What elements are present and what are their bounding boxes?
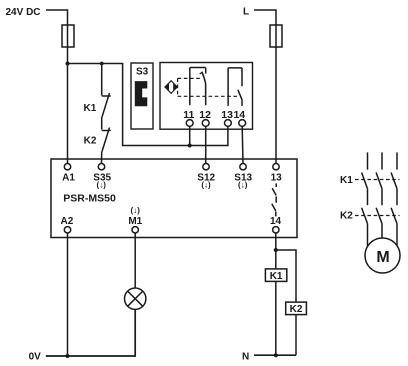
wire K1 coil to N [275, 281, 277, 355]
pluggable mark S35 [97, 180, 107, 189]
wire terminal 14 down [275, 233, 277, 269]
pin label 13 [221, 109, 233, 121]
contact K2 (NC feedback) [102, 117, 111, 164]
svg-text:K2: K2 [84, 136, 97, 147]
magnet symbol of S3 [135, 81, 148, 106]
motor M [365, 238, 400, 273]
terminal S13 [240, 164, 246, 170]
motor feeder pole 1 [362, 152, 368, 246]
svg-text:14: 14 [270, 216, 282, 227]
wire K2 coil to N [295, 315, 297, 356]
wire 0V rail [46, 309, 135, 356]
svg-text:PSR-MS50: PSR-MS50 [63, 193, 116, 205]
motor feeder pole 2 [376, 152, 382, 238]
wire sensor 12 to S12 [205, 127, 207, 164]
sensor actuation diamond symbol [165, 81, 177, 94]
pin label 14 [233, 109, 245, 121]
terminal S35 [98, 164, 104, 170]
label K2 [84, 136, 97, 147]
terminal label S35 [93, 173, 111, 184]
terminal label S13 [234, 173, 252, 184]
terminal A1 [64, 164, 70, 170]
svg-text:K1: K1 [84, 103, 97, 114]
wire 24V bus to sensor supply [68, 64, 228, 146]
label K2 contactor [340, 211, 353, 222]
pluggable mark S13 [238, 180, 248, 189]
dashed actuation lines [178, 78, 240, 96]
label K1 coil [270, 271, 283, 282]
svg-text:K2: K2 [340, 211, 353, 222]
node junction 24V bus at A1 column [66, 62, 70, 66]
svg-text:K2: K2 [290, 304, 303, 315]
svg-text:(↓): (↓) [97, 180, 107, 189]
fuse F2 [270, 25, 282, 47]
sensor contact 13-14 (NO) [228, 68, 242, 106]
terminal label A1 [62, 173, 75, 184]
wire 24V DC feed to A1 [46, 10, 68, 164]
pluggable mark S12 [201, 180, 211, 189]
internal safety contacts 13-14 [272, 183, 276, 216]
node junction K1 on N rail [274, 353, 278, 357]
svg-text:M1: M1 [128, 216, 142, 227]
safety sensor box B1 [160, 63, 253, 130]
terminal 14 [273, 227, 279, 233]
coil K2 [286, 302, 307, 315]
net L label [243, 7, 249, 18]
wire branch to K2 coil [276, 250, 296, 302]
wire M1 to lamp [134, 233, 136, 288]
wire A2 to 0V rail [67, 233, 69, 356]
sensor terminal 11 [186, 120, 193, 127]
label M [376, 249, 389, 266]
svg-text:0V: 0V [29, 352, 42, 363]
svg-text:L: L [243, 7, 249, 18]
terminal label M1 [128, 216, 142, 227]
net 24V DC label [6, 7, 41, 18]
node junction sensor terminal 11 [188, 144, 192, 148]
terminal A2 [64, 227, 70, 233]
label PSR-MS50 [63, 193, 116, 205]
wire stub to sensor terminal 11 [189, 127, 191, 146]
contactor K2 main contacts dashed link [355, 215, 400, 217]
svg-text:M: M [376, 249, 389, 266]
relay U1 PSR-MS50 box [51, 159, 297, 238]
sensor terminal 13 [225, 120, 232, 127]
terminal M1 [132, 227, 138, 233]
svg-text:K1: K1 [270, 271, 283, 282]
sensor terminal 12 [202, 120, 209, 127]
label S3 [136, 67, 149, 78]
terminal label 13 [271, 173, 283, 184]
label K1 contactor [340, 175, 353, 186]
contactor K1 main contacts dashed link [355, 179, 400, 181]
node junction K2 branch [274, 248, 278, 252]
label K2 coil [290, 304, 303, 315]
svg-text:K1: K1 [340, 175, 353, 186]
sensor contact 11-12 (NC positively driven) [190, 68, 206, 106]
terminal label 14 [270, 216, 282, 227]
svg-text:(↓): (↓) [201, 180, 211, 189]
node junction K1 branch [100, 62, 104, 66]
wire L feed to terminal 13 [254, 10, 276, 164]
label K1 [84, 103, 97, 114]
svg-text:13: 13 [271, 173, 283, 184]
terminal S12 [203, 164, 209, 170]
coil K1 [265, 269, 286, 282]
terminal label S12 [197, 173, 215, 184]
svg-text:A2: A2 [61, 216, 74, 227]
svg-text:A1: A1 [62, 173, 75, 184]
motor feeder pole 3 [391, 152, 397, 245]
svg-text:24V DC: 24V DC [6, 7, 41, 18]
contact K1 (NC feedback) [102, 64, 111, 118]
node junction A2 on 0V rail [66, 354, 70, 358]
lamp P1 [125, 288, 146, 309]
svg-text:(↓): (↓) [131, 206, 141, 215]
svg-text:N: N [242, 352, 249, 363]
pin label 12 [199, 109, 211, 121]
svg-text:S3: S3 [136, 67, 149, 78]
sensor terminal 14 [239, 120, 246, 127]
net N label [242, 352, 249, 363]
terminal label A2 [61, 216, 74, 227]
wire sensor 14 to S13 [241, 127, 244, 164]
net 0V label [29, 352, 42, 363]
svg-text:(↓): (↓) [238, 180, 248, 189]
actuator S3 box [131, 63, 153, 129]
wire N rail [254, 354, 296, 356]
pin label 11 [183, 109, 194, 121]
terminal 13 [273, 164, 279, 170]
pluggable mark M1 [131, 206, 141, 215]
fuse F1 [62, 25, 74, 47]
